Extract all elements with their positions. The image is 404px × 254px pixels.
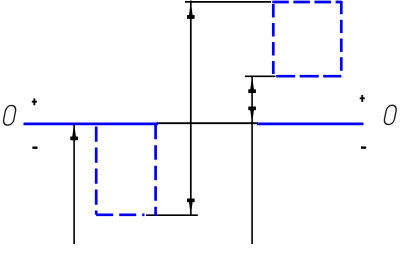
arrowhead down at axis on centre dimension [248,107,256,123]
minus sign (left) [32,146,37,148]
arrowhead up at top of full-amplitude dimension [187,3,195,19]
arrowhead up at axis on left marker [70,124,78,140]
full-amplitude dimension line [190,1,192,215]
zero axis right blue segment [257,123,364,126]
upper pulse dashed box: right edge [340,1,343,76]
upper pulse dashed box: left edge [272,4,275,74]
bottom extension line (black, at bottom of lower pulse) [146,214,198,216]
zero axis left blue segment [24,123,159,126]
top extension line (black) [185,1,271,3]
label 0 (left) [3,106,17,126]
mid extension line (black, at bottom of upper pulse) [245,75,276,77]
arrowhead up at top of centre dimension [248,77,256,93]
upper pulse dashed box: bottom edge [276,75,341,78]
arrowhead down at bottom of full-amplitude dimension [187,199,195,215]
plus sign (left) [32,98,37,105]
lower pulse dashed box: bottom edge [96,213,144,216]
centre dimension/marker line [251,77,253,245]
label 0 (right) [383,105,397,124]
zero axis middle black segment [156,122,258,124]
lower pulse dashed box: left edge [95,127,98,215]
left marker line [73,125,75,245]
upper pulse dashed box: top edge [272,1,341,4]
plus sign (right) [360,95,365,102]
minus sign (right) [361,146,366,148]
lower pulse dashed box: right edge [154,125,157,216]
